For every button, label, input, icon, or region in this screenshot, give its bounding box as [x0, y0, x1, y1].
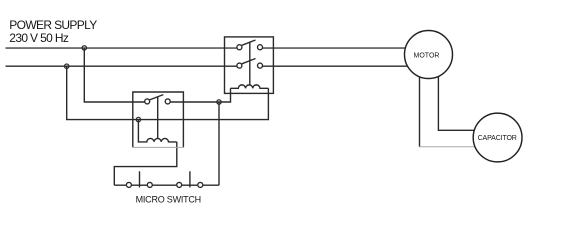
svg-text:MOTOR: MOTOR: [414, 53, 440, 60]
svg-text:230 V 50 Hz: 230 V 50 Hz: [9, 31, 69, 45]
svg-text:CAPACITOR: CAPACITOR: [478, 135, 517, 142]
svg-text:MICRO SWITCH: MICRO SWITCH: [136, 195, 201, 203]
svg-text:POWER SUPPLY: POWER SUPPLY: [9, 18, 97, 32]
